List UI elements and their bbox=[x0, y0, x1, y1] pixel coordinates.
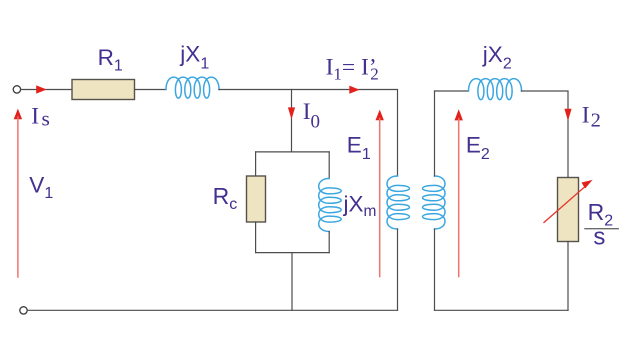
svg-text:jXm: jXm bbox=[343, 192, 377, 220]
arrow V1 (voltage, up) bbox=[14, 109, 22, 120]
wire right-loop left side lower bbox=[434, 229, 436, 310]
arrow I1 (on top wire) bbox=[349, 86, 359, 94]
resistor R2/s (variable) bbox=[558, 178, 579, 242]
inductor jXm bbox=[319, 179, 342, 232]
svg-text:R1: R1 bbox=[98, 45, 123, 74]
resistor R1 bbox=[72, 80, 135, 100]
arrow I2 (down) bbox=[564, 109, 571, 121]
wire Rc branch lower bbox=[255, 222, 257, 253]
wire parallel-group top bar bbox=[256, 151, 330, 153]
wire right-loop left side upper bbox=[434, 91, 436, 176]
svg-text:jX1: jX1 bbox=[179, 42, 209, 73]
transformer secondary winding bbox=[423, 176, 446, 229]
wire right-loop top left segment bbox=[435, 90, 469, 92]
svg-text:I2: I2 bbox=[582, 102, 601, 131]
wire main bottom bbox=[27, 309, 397, 311]
arrow E2 (up) bbox=[455, 109, 463, 120]
svg-text:E2: E2 bbox=[466, 132, 490, 163]
variable-resistor arrow bbox=[544, 185, 587, 222]
wire top-left (terminal to R1) bbox=[21, 89, 72, 91]
wire center branch lower bbox=[291, 253, 293, 311]
terminal bottom-left bbox=[20, 307, 27, 314]
wire right-loop bottom bbox=[435, 309, 569, 311]
arrow E1 (up) bbox=[376, 110, 384, 121]
svg-text:E1: E1 bbox=[347, 132, 371, 163]
wire jX2 to right-loop top-right corner and down bbox=[522, 91, 569, 178]
wire right-loop right side lower bbox=[567, 242, 569, 311]
svg-text:V1: V1 bbox=[29, 172, 53, 201]
svg-text:jX2: jX2 bbox=[482, 42, 512, 73]
inductor jX2 bbox=[469, 79, 522, 100]
wire middle-loop right lower bbox=[397, 229, 399, 310]
wire R1 to jX1 bbox=[135, 89, 167, 91]
node junction center branch bbox=[291, 90, 293, 152]
fraction bar bbox=[585, 228, 618, 230]
wire parallel-group bottom bar bbox=[256, 252, 330, 254]
wire jXm branch lower bbox=[328, 232, 330, 253]
transformer primary winding bbox=[387, 176, 410, 229]
svg-text:I1= I’2: I1= I’2 bbox=[326, 55, 379, 84]
arrow I0 (down) bbox=[288, 107, 295, 119]
svg-text:I0: I0 bbox=[303, 99, 320, 133]
svg-text:s: s bbox=[593, 224, 605, 251]
wire Rc branch upper bbox=[255, 152, 257, 176]
svg-text:Rc: Rc bbox=[213, 183, 238, 213]
arrow Is bbox=[36, 85, 47, 93]
terminal top-left bbox=[13, 86, 20, 93]
resistor Rc bbox=[247, 176, 266, 222]
inductor jXm branch upper bbox=[328, 152, 330, 179]
inductor jX1 bbox=[166, 77, 219, 98]
svg-text:Is: Is bbox=[31, 104, 50, 131]
wire jX1 to middle-loop corner and down to primary winding bbox=[219, 90, 398, 177]
